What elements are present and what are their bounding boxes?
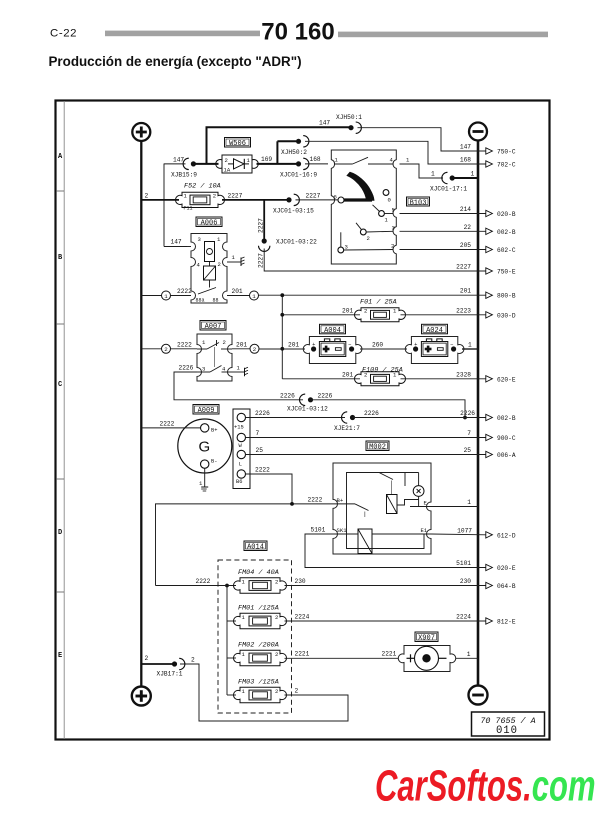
svg-text:XJC01-03:22: XJC01-03:22 xyxy=(276,239,317,246)
node 2 (right of A007) xyxy=(232,341,305,353)
svg-text:22: 22 xyxy=(464,224,472,231)
relay A006 xyxy=(164,217,227,304)
wire 2222 rail to A009 B+ xyxy=(141,420,200,428)
svg-text:88: 88 xyxy=(213,298,219,304)
svg-text:201: 201 xyxy=(236,341,247,348)
svg-text:3: 3 xyxy=(198,236,201,243)
svg-text:1: 1 xyxy=(252,293,256,300)
wire 214 pin5 to 020-B xyxy=(400,206,516,218)
wire 25 L to 006-A xyxy=(246,447,516,459)
wire 147 feed to XJB15:9 xyxy=(164,157,186,247)
wire 2226 to junction xyxy=(311,392,467,419)
svg-text:A009: A009 xyxy=(198,407,215,415)
wire 22 pin3 to 002-B xyxy=(400,224,516,236)
wire 2221 to X907 xyxy=(285,651,399,659)
svg-text:5101: 5101 xyxy=(456,560,471,567)
svg-text:L: L xyxy=(239,462,242,468)
svg-text:2: 2 xyxy=(275,688,278,695)
svg-text:2: 2 xyxy=(295,688,299,695)
svg-text:201: 201 xyxy=(232,288,243,295)
svg-text:P11: P11 xyxy=(184,206,193,212)
svg-text:030-D: 030-D xyxy=(497,312,516,319)
svg-text:E: E xyxy=(58,652,62,660)
wire 168 to 702-C xyxy=(305,141,516,168)
ground (A009 B-) xyxy=(199,468,208,491)
diode W506 xyxy=(216,138,258,174)
svg-text:2226: 2226 xyxy=(364,410,379,417)
watermark CarSoftos.com xyxy=(375,762,596,811)
svg-text:2226: 2226 xyxy=(280,392,295,399)
relay A007 xyxy=(197,321,232,382)
svg-text:2222: 2222 xyxy=(308,496,323,503)
battery minus terminal (top right) xyxy=(469,123,487,141)
svg-text:147: 147 xyxy=(319,120,330,127)
connector XJC01-03:15 xyxy=(273,194,314,215)
svg-text:260: 260 xyxy=(372,341,383,348)
wire 230 to 064-B xyxy=(285,578,516,590)
wire 1077 E1 to 612-D xyxy=(431,527,516,539)
wire 2226 from A007 pin 3 xyxy=(174,365,303,400)
wire 1 E to ground bus xyxy=(431,499,478,507)
svg-text:1: 1 xyxy=(471,171,475,178)
wire 2 from rail to fuse F52 xyxy=(141,192,179,200)
svg-text:B-: B- xyxy=(211,459,217,465)
svg-text:2224: 2224 xyxy=(456,614,471,621)
svg-text:2: 2 xyxy=(364,308,367,315)
node 1 (right of A006) and wire 201 to 800-B xyxy=(227,288,516,300)
svg-text:2: 2 xyxy=(191,657,195,664)
wire 2227 to B103 pin 6 xyxy=(296,192,339,200)
svg-text:2227: 2227 xyxy=(306,192,321,199)
fuse FM04/40A xyxy=(234,569,287,593)
alternator A009 xyxy=(178,405,232,474)
wire 2227 to XJC01-03:15 xyxy=(222,192,287,200)
svg-text:25: 25 xyxy=(256,447,264,454)
connector XJB17:1 xyxy=(157,658,185,677)
ground (A006 pin 2) xyxy=(227,254,245,266)
svg-text:CarSoftos.com: CarSoftos.com xyxy=(375,762,596,811)
control unit M002 xyxy=(333,441,431,554)
wire 2226 +15 to XJE21:7 xyxy=(246,410,346,418)
wire 147 to 750-C xyxy=(358,128,516,156)
wire 1 to ground bus xyxy=(452,171,478,179)
wire 2 rail to XJB17:1 xyxy=(141,655,174,664)
battery A024 xyxy=(405,324,464,363)
wire: feeder 201 vertical xyxy=(280,293,284,378)
svg-text:2221: 2221 xyxy=(382,651,397,658)
svg-text:147: 147 xyxy=(460,144,471,151)
svg-text:2: 2 xyxy=(367,235,370,242)
svg-text:205: 205 xyxy=(460,242,471,249)
svg-text:XJC01-03:12: XJC01-03:12 xyxy=(287,406,328,413)
svg-text:168: 168 xyxy=(310,156,321,163)
svg-text:010: 010 xyxy=(496,725,518,737)
svg-text:Producción de energía (excepto: Producción de energía (excepto "ADR") xyxy=(49,54,302,69)
page header xyxy=(49,18,549,69)
svg-text:2: 2 xyxy=(218,261,221,268)
ignition switch B103 xyxy=(331,150,429,264)
svg-text:3: 3 xyxy=(345,244,348,251)
svg-text:F01 / 25A: F01 / 25A xyxy=(360,299,397,307)
svg-text:FM02 /200A: FM02 /200A xyxy=(238,642,279,650)
wire 2226 to 002-B xyxy=(353,410,516,422)
svg-text:702-C: 702-C xyxy=(497,162,516,169)
wire 2222 B6 feed xyxy=(156,467,334,586)
svg-text:XJH50:2: XJH50:2 xyxy=(281,149,307,156)
svg-text:750-C: 750-C xyxy=(497,149,516,156)
svg-text:E1: E1 xyxy=(421,527,428,534)
svg-text:F52 / 10A: F52 / 10A xyxy=(184,183,221,191)
svg-text:612-D: 612-D xyxy=(497,532,516,539)
svg-text:2222: 2222 xyxy=(196,578,211,585)
svg-text:169: 169 xyxy=(261,156,272,163)
battery minus terminal (bottom right) xyxy=(469,686,488,705)
svg-text:G: G xyxy=(198,439,210,456)
connector XJC01-03:22 xyxy=(259,238,318,251)
svg-text:201: 201 xyxy=(342,371,353,378)
svg-text:1: 1 xyxy=(431,171,435,178)
wire 169 xyxy=(257,156,297,164)
wire: ground bus xyxy=(477,141,480,686)
svg-text:XJE21:7: XJE21:7 xyxy=(334,425,360,432)
svg-text:2: 2 xyxy=(275,651,278,658)
svg-text:A007: A007 xyxy=(205,323,222,331)
svg-text:2: 2 xyxy=(253,346,257,353)
wire 2224 to 812-E xyxy=(285,614,516,626)
svg-text:70 160: 70 160 xyxy=(261,18,334,45)
svg-text:1077: 1077 xyxy=(457,527,472,534)
svg-text:750-E: 750-E xyxy=(497,269,516,276)
connector XJB15:9 xyxy=(171,158,197,178)
connector XJC01-03:12 xyxy=(287,394,328,413)
wire 2227 branch down xyxy=(258,200,265,239)
svg-text:B103: B103 xyxy=(410,200,427,208)
svg-text:F109 / 25A: F109 / 25A xyxy=(362,367,403,375)
svg-text:2: 2 xyxy=(223,339,226,346)
node 2 (left of A007) xyxy=(141,341,197,353)
connector XJC01-16:9 xyxy=(280,158,317,178)
svg-text:XJB15:9: XJB15:9 xyxy=(171,172,197,179)
svg-text:2: 2 xyxy=(145,655,149,662)
svg-text:2: 2 xyxy=(145,192,149,199)
svg-text:2: 2 xyxy=(164,346,168,353)
fuse FM03/125A xyxy=(227,679,286,703)
connector XJC01-17:1 xyxy=(430,172,467,192)
svg-text:2226: 2226 xyxy=(179,365,194,372)
svg-text:2222: 2222 xyxy=(177,288,192,295)
svg-text:002-B: 002-B xyxy=(497,229,516,236)
svg-text:C: C xyxy=(58,381,62,389)
svg-text:812-E: 812-E xyxy=(497,619,516,626)
svg-text:B6: B6 xyxy=(236,479,242,485)
wire 1 X907 to bus xyxy=(456,651,478,659)
svg-text:2: 2 xyxy=(213,193,216,200)
svg-text:2227: 2227 xyxy=(258,253,265,268)
svg-text:7: 7 xyxy=(467,430,471,437)
svg-text:2: 2 xyxy=(275,578,278,585)
svg-text:3: 3 xyxy=(392,225,395,232)
svg-text:201: 201 xyxy=(342,307,353,314)
wire: +battery left rail 2222 xyxy=(140,141,142,686)
fuse F109/25A xyxy=(282,367,516,386)
svg-text:020-E: 020-E xyxy=(497,565,516,572)
wire 5101 SK1 to 020-E xyxy=(305,527,516,573)
svg-text:XJC01-16:9: XJC01-16:9 xyxy=(280,172,317,179)
svg-text:2222: 2222 xyxy=(177,341,192,348)
svg-text:A024: A024 xyxy=(426,327,443,335)
svg-text:2: 2 xyxy=(364,372,367,379)
svg-text:064-B: 064-B xyxy=(497,583,516,590)
wire 2227 to 750-E xyxy=(258,249,516,276)
svg-text:FM03 /125A: FM03 /125A xyxy=(238,679,279,687)
svg-text:W506: W506 xyxy=(229,140,246,148)
node 1 (left of A006) xyxy=(141,288,192,300)
ground (A007 pin 4) xyxy=(232,365,248,377)
svg-text:2: 2 xyxy=(391,243,394,250)
fuse FM01/125A xyxy=(227,605,286,629)
svg-text:168: 168 xyxy=(460,157,471,164)
svg-text:D: D xyxy=(58,529,62,537)
svg-text:2227: 2227 xyxy=(228,192,243,199)
svg-text:201: 201 xyxy=(288,341,299,348)
connector XJE21:7 xyxy=(334,412,360,432)
svg-text:C-22: C-22 xyxy=(50,28,77,40)
battery plus terminal (bottom left) xyxy=(132,687,151,706)
battery A004 xyxy=(303,324,362,363)
wire: W506 battery feed loop xyxy=(193,120,351,164)
svg-text:88a: 88a xyxy=(196,298,205,304)
wire 7 W to 900-C xyxy=(246,430,516,442)
svg-text:147: 147 xyxy=(171,239,182,246)
svg-text:2222: 2222 xyxy=(160,420,175,427)
svg-text:2226: 2226 xyxy=(255,410,270,417)
svg-text:A014: A014 xyxy=(247,544,264,552)
svg-text:006-A: 006-A xyxy=(497,452,516,459)
svg-text:5101: 5101 xyxy=(311,527,326,534)
svg-text:2227: 2227 xyxy=(258,218,265,233)
svg-text:201: 201 xyxy=(460,288,471,295)
svg-text:2221: 2221 xyxy=(295,651,310,658)
svg-text:2: 2 xyxy=(275,614,278,621)
wire: fuse feeder vertical xyxy=(225,584,229,695)
svg-text:B+: B+ xyxy=(211,427,217,433)
svg-text:900-C: 900-C xyxy=(497,435,516,442)
svg-text:2226: 2226 xyxy=(318,392,333,399)
svg-text:800-B: 800-B xyxy=(497,293,516,300)
fuse F01/25A xyxy=(282,299,516,322)
svg-text:1: 1 xyxy=(164,293,168,300)
svg-text:1: 1 xyxy=(467,651,471,658)
svg-text:XJC01-03:15: XJC01-03:15 xyxy=(273,208,314,215)
svg-text:2226: 2226 xyxy=(460,410,475,417)
svg-text:1A: 1A xyxy=(224,167,231,174)
svg-text:+15: +15 xyxy=(234,425,244,431)
svg-text:A004: A004 xyxy=(324,327,341,335)
svg-text:2222: 2222 xyxy=(255,467,270,474)
svg-text:SK1: SK1 xyxy=(337,527,348,534)
wire 2 FM03 loop to XJB17:1 xyxy=(180,657,348,722)
svg-text:620-E: 620-E xyxy=(497,376,516,383)
svg-text:XJC01-17:1: XJC01-17:1 xyxy=(430,186,467,193)
wire 1 battery to bus xyxy=(462,341,478,349)
wire 168 to B103 pin 1 xyxy=(305,156,328,164)
connector XJH50:2 xyxy=(281,136,309,156)
svg-text:7: 7 xyxy=(256,430,260,437)
wire pin4 to XJC01-17:1 xyxy=(400,157,444,179)
svg-text:002-B: 002-B xyxy=(497,415,516,422)
wire 205 pin2 to 602-C xyxy=(400,242,516,254)
svg-text:A006: A006 xyxy=(201,220,218,228)
svg-text:3: 3 xyxy=(202,366,205,373)
svg-text:2: 2 xyxy=(225,157,228,164)
fuse box A014 (dashed) xyxy=(218,541,292,713)
svg-text:214: 214 xyxy=(460,206,471,213)
svg-text:25: 25 xyxy=(464,447,472,454)
wire 2222 to FM04 xyxy=(156,578,237,586)
svg-text:1: 1 xyxy=(467,499,471,506)
svg-text:B+: B+ xyxy=(337,497,344,504)
svg-text:230: 230 xyxy=(295,578,306,585)
svg-text:M002: M002 xyxy=(369,444,386,452)
fuse F52/10A xyxy=(176,183,225,212)
svg-text:XJB17:1: XJB17:1 xyxy=(157,671,183,678)
svg-text:602-C: 602-C xyxy=(497,247,516,254)
connector XJH50:1 xyxy=(336,114,362,133)
lamp X907 xyxy=(398,632,455,672)
svg-text:FM04 / 40A: FM04 / 40A xyxy=(238,569,279,577)
svg-text:230: 230 xyxy=(460,578,471,585)
wire 260 xyxy=(360,341,407,349)
svg-text:1: 1 xyxy=(468,341,472,348)
svg-text:2227: 2227 xyxy=(456,264,471,271)
terminal strip +15/W/L/B6 xyxy=(233,409,250,489)
wire branch to XJH50:2 xyxy=(276,141,278,164)
svg-text:2224: 2224 xyxy=(295,614,310,621)
title block 70 7655 / A 010 xyxy=(472,712,545,737)
svg-text:FM01 /125A: FM01 /125A xyxy=(238,605,279,613)
svg-text:XJH50:1: XJH50:1 xyxy=(336,114,362,121)
svg-text:X907: X907 xyxy=(418,635,435,643)
svg-text:2223: 2223 xyxy=(456,307,471,314)
svg-text:5: 5 xyxy=(392,207,395,214)
fuse FM02/200A xyxy=(227,642,286,666)
svg-text:020-B: 020-B xyxy=(497,211,516,218)
battery plus terminal (top left) xyxy=(132,123,150,141)
svg-text:2328: 2328 xyxy=(456,371,471,378)
